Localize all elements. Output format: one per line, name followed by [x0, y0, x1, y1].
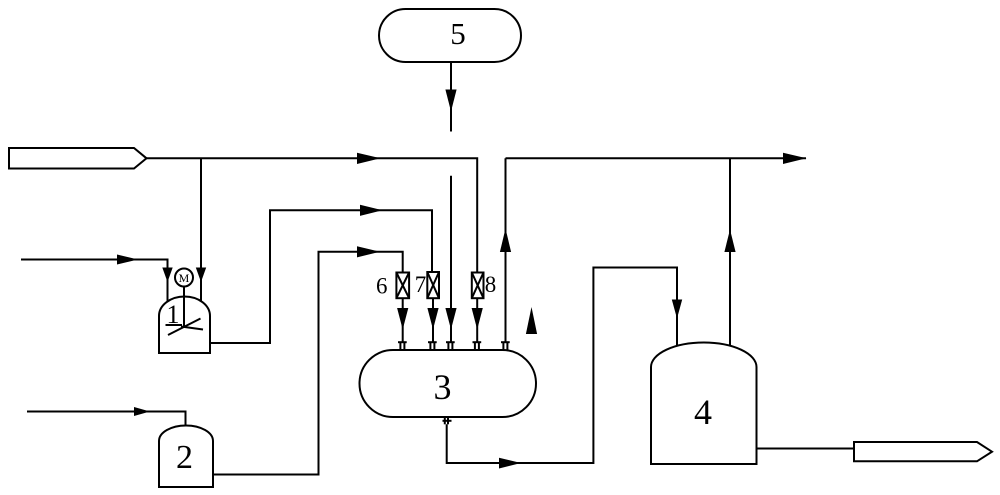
valve 8 — [472, 273, 484, 299]
agitator blade right — [181, 327, 203, 330]
arrow right on feed input 2 — [117, 255, 138, 265]
arrow down below valve 8 — [472, 308, 483, 330]
arrow down into tank 1 right inlet — [196, 268, 206, 283]
agitator blade diagonal — [168, 319, 201, 336]
nozzle flange bottom of vessel 3 — [443, 417, 452, 424]
agitator motor M — [175, 269, 193, 287]
wire vessel 4 outlet to output banner — [757, 448, 855, 450]
vessel 4 — [651, 343, 757, 465]
arrow down into vessel 4 — [672, 300, 682, 319]
wire output line — [506, 157, 807, 159]
arrow right on bottom transfer line — [499, 458, 521, 469]
wire riser from vessel 4 to output line — [729, 158, 731, 349]
nozzle flange 4 on vessel 3 — [473, 342, 482, 350]
nozzle flange 5 on vessel 3 — [501, 342, 510, 350]
arrow right on tank 1 outlet — [360, 205, 383, 216]
valve 7 — [427, 272, 439, 298]
arrow up on vessel-3 riser — [500, 229, 511, 253]
wire main feed line — [147, 158, 478, 272]
wire tank 1 outlet to valve 7 — [210, 210, 432, 343]
valve 6 — [396, 273, 409, 299]
arrow down below valve 7 — [427, 308, 438, 330]
wire valve 8 to vessel 3 — [476, 298, 478, 342]
wire feed input 3 to tank 2 — [27, 412, 186, 427]
vessel 5 — [379, 9, 521, 62]
svg-text:2: 2 — [176, 439, 193, 476]
input banner left — [9, 148, 147, 169]
arrow down near vessel 3 on vessel-5 line — [445, 308, 456, 330]
wire vessel 3 bottom outlet to vessel 4 — [447, 268, 677, 464]
wire valve 7 to vessel 3 — [432, 298, 434, 342]
arrow right on tank 2 inlet — [134, 407, 150, 416]
output banner right — [854, 442, 992, 461]
vessel 3 — [360, 350, 537, 417]
svg-text:M: M — [179, 271, 190, 285]
arrow down on vessel-5 line — [445, 90, 456, 112]
wire riser from vessel 3 to output line — [505, 158, 507, 342]
svg-text:8: 8 — [485, 272, 497, 297]
svg-text:7: 7 — [415, 272, 427, 297]
svg-text:5: 5 — [450, 16, 466, 51]
wire from vessel 5 (lower segment) — [450, 176, 452, 342]
nozzle flange 3 on vessel 3 — [446, 342, 455, 350]
agitator blade horizontal — [166, 324, 183, 326]
nozzle flange 2 on vessel 3 — [428, 342, 437, 350]
arrow at output line end — [783, 153, 807, 164]
wire valve 6 to vessel 3 — [402, 298, 404, 342]
arrow down into tank 1 left inlet — [162, 268, 172, 283]
arrow right on tank 2 outlet — [357, 246, 380, 257]
wire feed input 2 to tank 1 — [21, 260, 168, 305]
wire tank 2 outlet to valve 6 — [213, 252, 403, 475]
wire from main line down to tank 1 — [200, 158, 202, 305]
arrow up on vessel-4 riser — [724, 230, 735, 253]
svg-text:3: 3 — [434, 367, 452, 407]
tank 2 — [159, 426, 213, 488]
nozzle flange 1 on vessel 3 — [398, 342, 407, 350]
wire from vessel 5 (upper segment) — [450, 62, 452, 132]
agitator shaft — [183, 287, 185, 329]
arrow down below valve 6 — [397, 308, 408, 330]
svg-text:4: 4 — [694, 392, 712, 432]
arrow up isolated above vessel 3 — [526, 307, 537, 334]
svg-text:6: 6 — [376, 274, 388, 299]
tank 1 — [159, 297, 210, 354]
arrow on main feed line — [357, 153, 381, 164]
